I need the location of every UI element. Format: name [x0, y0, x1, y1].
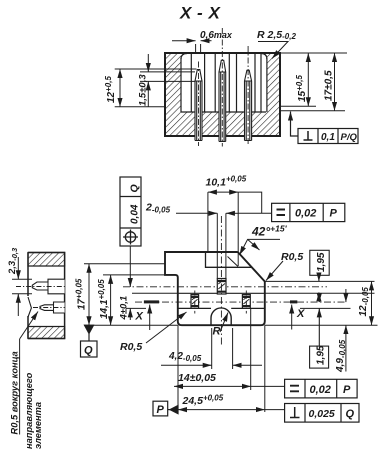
svg-text:R0,5 вокруг конца: R0,5 вокруг конца: [10, 351, 20, 434]
dimension 2-0.05: [145, 202, 272, 215]
dimension 1.5±0.3 (left): [138, 54, 196, 107]
svg-text:0,02: 0,02: [295, 208, 316, 220]
right pin (plan): [242, 291, 250, 314]
R label in U-slot: [213, 313, 229, 338]
svg-text:14±0,05: 14±0,05: [178, 372, 216, 384]
svg-text:P/Q: P/Q: [341, 132, 358, 143]
angle dimension 42°+15': [240, 224, 288, 256]
extension lines below part: [178, 308, 265, 414]
dimension 12+0.5 (left): [104, 69, 197, 107]
dimension 4±0.1 lower arrow: [129, 308, 131, 320]
svg-text:1,95: 1,95: [316, 345, 327, 365]
notch corner chamfer: [228, 257, 239, 267]
svg-text:42°+15': 42°+15': [251, 224, 288, 239]
svg-text:X: X: [135, 311, 144, 323]
svg-text:P: P: [330, 208, 338, 220]
fillet left wall top (R2.5): [181, 54, 187, 60]
svg-text:1,5±0,3: 1,5±0,3: [138, 74, 149, 106]
top hatched band: [28, 253, 65, 267]
block outline: [165, 53, 280, 136]
svg-text:R0,5: R0,5: [281, 251, 303, 263]
svg-text:17+0,05: 17+0,05: [75, 278, 88, 310]
svg-text:Q: Q: [346, 408, 355, 420]
detail outline: [28, 253, 65, 339]
R0.5 chamfer corner leader (top right): [266, 251, 303, 281]
section X thick bar right: [290, 300, 297, 303]
svg-text:0,025: 0,025: [309, 408, 335, 420]
section plane X-X centerline: [135, 301, 347, 303]
section X thick bar left: [144, 300, 159, 303]
right wall hatch: [267, 53, 280, 112]
boxed dim 1.95 (top right): [310, 250, 329, 301]
svg-text:12+0,5: 12+0,5: [104, 76, 117, 103]
svg-text:0,1: 0,1: [321, 132, 335, 143]
groove bottom edge: [178, 307, 265, 309]
left wall hatch: [165, 53, 181, 112]
svg-text:X - X: X - X: [179, 4, 221, 23]
dimension 12-0.05 (right): [358, 281, 372, 325]
top pin (plan): [217, 279, 226, 295]
svg-text:P: P: [343, 384, 351, 396]
tolerance frame parallelism 0.02 P (bottom right): [285, 379, 358, 398]
notch step (10.1 wide): [206, 252, 253, 267]
svg-text:2,3-0,3: 2,3-0,3: [7, 247, 19, 275]
dimension 24.5+0.05: [178, 394, 285, 410]
vertical tolerance frame position 0.04 Q: [120, 177, 141, 246]
U-slot at bottom: [211, 308, 231, 325]
dimension 17+0.05 (left): [75, 264, 90, 326]
svg-text:X: X: [296, 308, 305, 320]
slot bottom line: [181, 111, 266, 113]
left extension lines: [84, 264, 178, 326]
note underline: [19, 339, 21, 435]
svg-text:0,04: 0,04: [130, 204, 141, 224]
needle 1 (side): [32, 279, 64, 294]
svg-text:0,6max: 0,6max: [200, 30, 233, 41]
svg-text:24,5+0,05: 24,5+0,05: [182, 394, 224, 408]
svg-text:15+0,5: 15+0,5: [295, 75, 308, 102]
part vertical centerline: [220, 216, 222, 345]
needle pin 3: [245, 46, 252, 146]
bottom hatched band: [28, 327, 65, 339]
svg-text:4,2-0,05: 4,2-0,05: [168, 351, 202, 363]
svg-text:14,1+0,05: 14,1+0,05: [97, 279, 110, 319]
svg-text:4±0,1: 4±0,1: [119, 296, 130, 321]
fillet right wall top (R2.5): [261, 54, 267, 60]
dimension 14.1+0.05 (left): [97, 275, 111, 325]
datum Q triangle and box: [81, 325, 98, 357]
dimension R2.5-0.2 leader: [257, 29, 296, 59]
left pin (plan): [191, 291, 199, 314]
needle pin 1: [195, 62, 202, 147]
dimension 2.3-0.3 (detail): [7, 247, 32, 316]
frame leader down to pin row centerline: [129, 246, 131, 287]
R0.5 leader (lower left corner of part): [120, 312, 187, 353]
svg-text:4,9-0,05: 4,9-0,05: [335, 339, 347, 373]
dimension 15+0.5 (right): [280, 53, 347, 106]
right side extension lines: [265, 281, 378, 325]
needle pin 2: [219, 28, 226, 147]
svg-text:10,1+0,05: 10,1+0,05: [206, 175, 247, 189]
svg-text:2-0,05: 2-0,05: [145, 202, 171, 215]
channel extension lines above part: [217, 213, 226, 278]
svg-text:Q: Q: [129, 184, 141, 192]
plan view part outline: [165, 252, 265, 325]
svg-text:P: P: [157, 404, 165, 416]
svg-text:R0,5: R0,5: [120, 341, 142, 353]
svg-text:Q: Q: [84, 345, 93, 357]
left detail view: guide end: [16, 253, 65, 339]
tolerance frame perpendicularity 0.025 Q (bottom right): [285, 404, 359, 423]
groove top edge: [178, 292, 265, 294]
tolerance frame perpendicularity 0.1 P/Q: [291, 112, 359, 144]
section arrow right + label X: [291, 305, 293, 330]
svg-text:12-0,05: 12-0,05: [358, 287, 370, 317]
pin channel white gaps in bottom band: [195, 112, 252, 136]
boxed dim 1.95 (bottom right): [310, 295, 329, 369]
note text R0.5 around guide element end (rotated): [10, 351, 44, 449]
note leader to needle tip: [20, 312, 38, 340]
needle 2 (side): [40, 302, 65, 313]
bottom band hatch: [165, 112, 280, 136]
dimension 4.9-0.05 (right): [335, 289, 347, 373]
dimension 10.1+0.05: [206, 175, 262, 267]
section arrow left + label X: [149, 305, 151, 330]
datum P triangle and box: [153, 401, 178, 416]
svg-text:17±0,5: 17±0,5: [324, 70, 335, 101]
svg-text:R 2,5-0,2: R 2,5-0,2: [257, 29, 296, 41]
interior slot walls: [181, 53, 267, 112]
dimension 14±0.05: [174, 372, 285, 386]
svg-text:элемента: элемента: [33, 402, 43, 449]
dimension 17±0.5 (right): [281, 53, 345, 111]
guide block body (section X-X): [165, 53, 280, 136]
dimension 4.2-0.05: [161, 351, 262, 365]
svg-text:0,02: 0,02: [310, 384, 331, 396]
funnel notch in left edge: [28, 297, 31, 317]
svg-text:R: R: [213, 326, 221, 338]
pin row horizontal centerline: [123, 286, 327, 288]
svg-text:1,95: 1,95: [316, 252, 327, 272]
dimension 0.6max: [172, 30, 233, 53]
tolerance frame parallelism 0.02 P (top right): [272, 203, 345, 221]
